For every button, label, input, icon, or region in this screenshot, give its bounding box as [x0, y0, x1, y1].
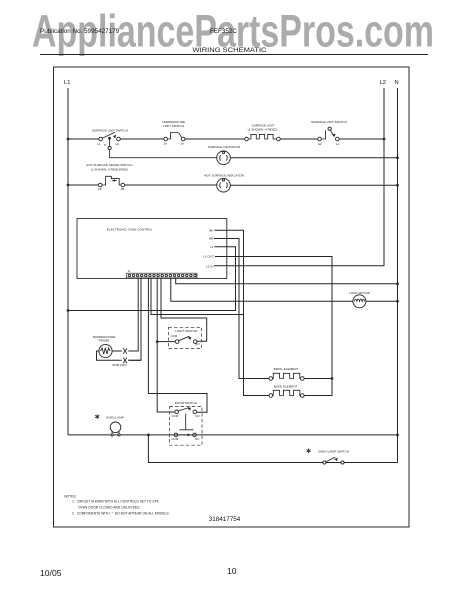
svg-text:NC: NC: [195, 437, 199, 441]
svg-text:10/05: 10/05: [40, 568, 62, 578]
svg-text:PROBE: PROBE: [99, 339, 110, 343]
svg-text:2A: 2A: [164, 142, 168, 146]
svg-text:SURFACE UNIT SWITCH: SURFACE UNIT SWITCH: [92, 128, 128, 132]
svg-text:N: N: [395, 80, 399, 86]
svg-text:BROIL ELEMENT: BROIL ELEMENT: [274, 367, 299, 371]
svg-text:L1: L1: [210, 245, 214, 249]
svg-text:FEF352C: FEF352C: [210, 28, 237, 35]
svg-text:TEMPERATURE: TEMPERATURE: [92, 335, 115, 339]
svg-text:10: 10: [227, 566, 237, 576]
svg-text:DOOR SWITCH: DOOR SWITCH: [175, 401, 197, 405]
svg-text:L2: L2: [380, 80, 386, 86]
svg-text:P: P: [104, 143, 106, 147]
svg-text:HOT SURFACE INDICATOR: HOT SURFACE INDICATOR: [204, 174, 244, 178]
svg-text:COM: COM: [171, 414, 178, 418]
svg-text:SURFACE INDICATOR: SURFACE INDICATOR: [208, 145, 241, 149]
svg-text:SURFACE UNIT: SURFACE UNIT: [252, 124, 275, 128]
svg-text:L1: L1: [97, 142, 101, 146]
svg-text:BK: BK: [209, 228, 213, 232]
svg-text:L2: L2: [336, 142, 340, 146]
svg-text:L1: L1: [64, 80, 70, 86]
svg-text:TEMPERATURE: TEMPERATURE: [162, 120, 185, 124]
svg-text:NOTES:: NOTES:: [64, 494, 76, 498]
svg-text:LIGHT SWITCH: LIGHT SWITCH: [175, 329, 197, 333]
svg-text:PRB CON: PRB CON: [112, 363, 126, 367]
svg-text:318417754: 318417754: [209, 516, 241, 523]
svg-text:1. CIRCUIT SHOWN WITH ALL CON: 1. CIRCUIT SHOWN WITH ALL CONTROLS SET T…: [72, 500, 159, 504]
svg-text:2B: 2B: [121, 187, 125, 191]
svg-text:BAKE ELEMENT: BAKE ELEMENT: [274, 385, 298, 389]
svg-text:(1 SHOWN, 4 REQUIRED): (1 SHOWN, 4 REQUIRED): [91, 167, 128, 171]
svg-text:OVEN LAMP: OVEN LAMP: [106, 416, 124, 420]
svg-text:COM: COM: [171, 437, 178, 441]
svg-text:H2: H2: [318, 142, 322, 146]
svg-text:(1 SHOWN, 4 REQD): (1 SHOWN, 4 REQD): [248, 128, 278, 132]
svg-text:L2 OUT: L2 OUT: [203, 255, 214, 259]
svg-text:OVEN DOOR CLOSED AND UNLOCKED.: OVEN DOOR CLOSED AND UNLOCKED.: [78, 506, 140, 510]
svg-text:2. COMPONENTS WITH * DO NOT: 2. COMPONENTS WITH * DO NOT APPEAR ON AL…: [72, 512, 170, 516]
svg-text:L2 IN: L2 IN: [206, 265, 213, 269]
svg-text:1A: 1A: [181, 142, 185, 146]
svg-text:Publication No. 5995427179: Publication No. 5995427179: [40, 28, 120, 35]
svg-text:OVEN LAMP SWITCH: OVEN LAMP SWITCH: [318, 449, 349, 453]
svg-text:LOCK MOTOR: LOCK MOTOR: [349, 291, 370, 295]
svg-text:COM: COM: [170, 334, 177, 338]
svg-text:HOT SURFACE SENSE SWITCH: HOT SURFACE SENSE SWITCH: [86, 163, 132, 167]
svg-text:1B: 1B: [98, 187, 102, 191]
svg-text:ELECTRONIC OVEN CONTROL: ELECTRONIC OVEN CONTROL: [107, 228, 153, 232]
svg-text:LIMIT SWITCH: LIMIT SWITCH: [163, 124, 184, 128]
svg-text:WIRING SCHEMATIC: WIRING SCHEMATIC: [193, 47, 267, 54]
svg-text:H1: H1: [115, 142, 119, 146]
svg-text:SURFACE UNIT SWITCH: SURFACE UNIT SWITCH: [311, 120, 347, 124]
